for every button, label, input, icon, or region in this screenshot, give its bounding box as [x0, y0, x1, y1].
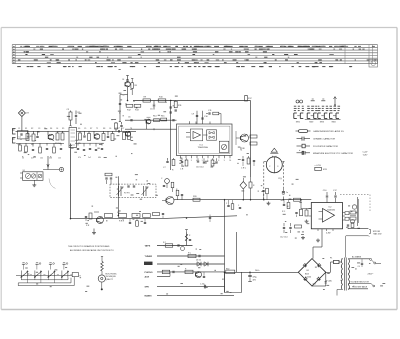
row1 components — [163, 242, 185, 251]
svg-text:10: 10 — [229, 160, 231, 162]
wire row TUNER — [145, 256, 225, 258]
transistor T8 — [125, 131, 130, 136]
capacitor C17 — [323, 190, 328, 203]
svg-text:MINIATURE ELECTROLYTIC CAPACIT: MINIATURE ELECTROLYTIC CAPACITOR — [313, 152, 353, 155]
svg-text:C4: C4 — [358, 266, 360, 268]
resistor R15 — [161, 116, 167, 121]
resistor R8 — [131, 78, 137, 95]
resistor R1 — [26, 131, 33, 140]
bottom caps U2 — [280, 223, 302, 239]
parts cluster w1 — [262, 178, 282, 200]
wire coupling vertical — [170, 101, 172, 171]
legend extra resistor note — [315, 164, 328, 171]
svg-text:230V~: 230V~ — [368, 274, 375, 276]
svg-text:R R R: R R R — [119, 221, 125, 223]
svg-text:68k: 68k — [98, 157, 101, 159]
U2 pins — [309, 209, 350, 232]
capacitor C16 diamond node — [240, 178, 247, 200]
lamp V1 — [264, 148, 285, 173]
svg-text:VOLTAGE SELECTOR: VOLTAGE SELECTOR — [351, 280, 370, 283]
capacitor C15 — [161, 178, 174, 192]
IC1 bottom parts — [180, 158, 188, 170]
capacitor C1 — [18, 131, 29, 139]
capacitor C6b — [154, 119, 174, 130]
control block — [219, 141, 229, 152]
wire input bus — [16, 130, 137, 132]
svg-text:R6: R6 — [78, 128, 80, 130]
potentiometer P1 — [69, 126, 77, 148]
node annotation arc — [49, 179, 56, 189]
svg-text:TUNER: TUNER — [145, 256, 153, 258]
transistor T1 — [48, 131, 54, 140]
row2 components — [188, 252, 200, 257]
wire row RADIO — [144, 262, 225, 266]
connector jack — [43, 156, 64, 172]
capacitor C6 — [128, 117, 132, 122]
transistor T4 — [236, 131, 249, 145]
legend voltage note — [363, 152, 369, 157]
svg-text:2: 2 — [269, 166, 270, 168]
svg-text:POLYESTER CAPACITOR: POLYESTER CAPACITOR — [313, 145, 338, 148]
svg-text:C3: C3 — [38, 128, 40, 130]
svg-text:TAPE: TAPE — [145, 245, 151, 248]
resistor R18 — [250, 135, 257, 138]
bridge rectifier BR1 — [298, 259, 332, 286]
wire row AUX — [145, 275, 171, 278]
component labels input row — [18, 128, 132, 160]
op-amp U2 TDA2030 box — [311, 203, 342, 229]
annotation marks — [18, 69, 386, 294]
transistor T3 — [125, 82, 130, 87]
note text — [68, 245, 114, 252]
svg-text:C13 C14: C13 C14 — [196, 167, 203, 169]
parts list table — [12, 45, 377, 67]
legend resistor symbol — [296, 130, 345, 133]
capacitor C19 smoothing — [248, 272, 257, 281]
svg-text:TDA1524A: TDA1524A — [198, 146, 209, 149]
transistor T2 — [94, 131, 100, 139]
svg-text:R1: R1 — [25, 128, 27, 130]
legend electrolytic cap symbol — [297, 150, 354, 155]
transistor T6 — [97, 217, 104, 224]
wire return loop — [225, 272, 242, 292]
svg-text:C5: C5 — [84, 128, 86, 130]
capacitor C4 — [122, 76, 129, 82]
svg-text:2n2: 2n2 — [88, 157, 91, 159]
svg-text:C=25°: C=25° — [363, 152, 369, 154]
svg-text:T=85°: T=85° — [363, 154, 368, 156]
wire row MAINS — [145, 295, 235, 298]
svg-text:10k: 10k — [40, 158, 43, 160]
svg-text:SW4: SW4 — [332, 121, 336, 123]
svg-text:R2: R2 — [31, 128, 33, 130]
svg-text:0.4W: 0.4W — [326, 232, 331, 234]
svg-text:C 47μ: C 47μ — [200, 284, 205, 286]
svg-text:3: 3 — [277, 166, 278, 168]
svg-text:P2 P3: P2 P3 — [124, 193, 130, 195]
svg-text:R8: R8 — [103, 128, 105, 130]
row5 join — [169, 272, 171, 277]
svg-text:C2200: C2200 — [306, 276, 312, 278]
wire mains top — [348, 256, 381, 264]
label 230V — [368, 274, 375, 276]
wire stage A — [133, 100, 251, 102]
wire stage B — [125, 119, 177, 121]
wire stage B return — [125, 120, 177, 129]
wire vertical bus left — [70, 144, 72, 219]
transformer TR1 — [337, 258, 350, 296]
switch S1 block — [20, 170, 43, 187]
svg-text:C4: C4 — [56, 128, 58, 130]
connector J1 (DIN input diamond) — [18, 110, 29, 132]
output network — [347, 197, 359, 229]
wire speaker out — [346, 229, 382, 237]
resistor R3 R4 — [55, 131, 64, 145]
switch bus wiring — [18, 277, 74, 286]
svg-text:R7: R7 — [90, 128, 92, 130]
meter note — [106, 273, 118, 281]
wire bias vertical — [119, 95, 128, 122]
capacitor C11 R16 — [206, 110, 221, 124]
svg-text:9: 9 — [224, 160, 225, 162]
diode matrix block — [207, 130, 217, 140]
row4 components — [162, 268, 235, 277]
second stage network — [75, 143, 104, 151]
wire feed vertical — [250, 101, 252, 178]
label IC1 — [198, 145, 209, 150]
capacitor C20 mains — [358, 259, 364, 268]
dashed feedback wire — [340, 195, 370, 213]
svg-text:CERAMIC CAPACITOR: CERAMIC CAPACITOR — [313, 138, 336, 141]
svg-text:B40/: B40/ — [305, 274, 309, 276]
wire row SPK — [145, 287, 225, 289]
wire row PHONO — [145, 272, 225, 274]
resistor R22 R23 right — [350, 205, 357, 220]
capacitor C5 — [150, 101, 155, 111]
capacitor C21 — [282, 188, 288, 194]
resistor R2 network — [31, 131, 39, 146]
parts under wire — [129, 219, 146, 227]
svg-text:CARBON/RESISTOR LAYER 5%: CARBON/RESISTOR LAYER 5% — [313, 130, 344, 133]
row1 riser — [185, 230, 191, 246]
resistor R24 meter — [101, 256, 104, 275]
svg-text:47Ω: 47Ω — [323, 169, 327, 171]
legend ceramic cap symbol — [297, 137, 336, 141]
network below left — [115, 122, 123, 131]
capacitor C2 — [117, 128, 131, 140]
svg-text:C2(-): C2(-) — [278, 178, 282, 180]
svg-text:R15: R15 — [161, 116, 164, 118]
transistor T5 — [162, 197, 174, 205]
resistor R21 vertical — [249, 177, 255, 200]
wire vertical mid — [117, 176, 119, 215]
resistor boxes T6 — [85, 212, 113, 227]
svg-text:THE CIRCUIT IS DRAWN IN POSITI: THE CIRCUIT IS DRAWN IN POSITION AND — [68, 245, 110, 248]
op-amp U1 TDA1524 box — [177, 124, 233, 156]
svg-text:MAINS: MAINS — [145, 295, 153, 298]
svg-text:TDA2030: TDA2030 — [327, 208, 335, 211]
capacitor C7 C8 — [163, 158, 175, 172]
svg-text:C7: C7 — [122, 128, 124, 130]
label U2 below — [326, 232, 331, 234]
svg-text:8: 8 — [218, 160, 219, 162]
svg-text:SPK: SPK — [145, 287, 150, 289]
svg-text:C12 C14: C12 C14 — [280, 237, 287, 239]
capacitor C9 C10 above IC — [192, 111, 209, 124]
capacitor C3 R7 pair — [67, 109, 81, 126]
svg-text:R30: R30 — [226, 268, 229, 270]
transistor T7 — [146, 117, 151, 124]
svg-text:T4: T4 — [240, 150, 242, 152]
long risers — [224, 200, 226, 293]
lower amp row boxes — [119, 213, 165, 223]
op-amp U1 triangle — [186, 129, 208, 141]
wire U2 to bridge — [313, 229, 322, 259]
svg-text:S1: S1 — [23, 170, 25, 172]
svg-text:T2: T2 — [96, 128, 98, 130]
lower network row — [16, 143, 64, 159]
wire DC rail — [225, 270, 299, 273]
svg-text:47k: 47k — [78, 157, 81, 159]
svg-text:R14: R14 — [153, 116, 156, 118]
resistor R10 — [158, 97, 166, 103]
resistor R9 — [143, 97, 150, 103]
ground g1 — [267, 202, 271, 206]
svg-text:ELECTRONIC: ELECTRONIC — [106, 273, 118, 275]
cap on lower bus — [209, 215, 211, 223]
resistor R5 cluster — [78, 131, 91, 145]
op-amp U2 triangle — [319, 207, 336, 223]
svg-text:1k5: 1k5 — [58, 158, 61, 160]
svg-text:C R C: C R C — [241, 168, 247, 170]
row6 capacitor — [200, 284, 206, 289]
meter M1 — [98, 275, 105, 290]
ground g3 — [92, 229, 96, 235]
wire into amp — [305, 209, 309, 224]
cluster caps left — [105, 173, 112, 184]
resistor R6 cluster — [102, 131, 114, 140]
svg-text:PHONO: PHONO — [145, 272, 153, 274]
fuse F1 — [326, 258, 342, 273]
svg-text:470μ: 470μ — [253, 277, 257, 279]
legend potentiometer symbols — [294, 97, 341, 124]
svg-text:C1: C1 — [19, 137, 21, 139]
svg-text:1n: 1n — [286, 192, 288, 194]
svg-text:AS VIEWED OFF BECAUSE ON POSIT: AS VIEWED OFF BECAUSE ON POSITION TO — [70, 249, 114, 252]
svg-text:C(M): C(M) — [328, 281, 332, 283]
cluster above T5 — [176, 189, 183, 200]
svg-text:QUALITY: QUALITY — [106, 278, 114, 281]
svg-text:5: 5 — [202, 160, 203, 162]
svg-text:R4: R4 — [50, 128, 52, 130]
svg-text:C6: C6 — [109, 128, 111, 130]
svg-text:3: 3 — [191, 160, 192, 162]
svg-text:C6: C6 — [128, 117, 130, 119]
connector J2 phono jacks — [12, 129, 16, 144]
resistor R14 — [153, 116, 160, 122]
resistor R12 R13 below — [126, 103, 141, 112]
svg-text:≈ 4.7Ω: ≈ 4.7Ω — [315, 164, 322, 167]
ground g2 — [301, 236, 320, 242]
svg-text:C1: C1 — [18, 128, 20, 130]
riser parts — [226, 200, 241, 210]
svg-text:R5: R5 — [62, 128, 64, 130]
svg-text:AUX: AUX — [145, 275, 150, 278]
svg-text:SW1: SW1 — [296, 121, 300, 123]
wire mains bottom — [348, 280, 374, 288]
svg-text:SW3: SW3 — [320, 121, 324, 123]
row3 diodes — [196, 260, 208, 267]
wire U2 right to transformer — [345, 236, 347, 258]
resistor R17 above right — [245, 95, 253, 101]
svg-text:IC2: IC2 — [329, 207, 332, 209]
resistor R19 — [250, 142, 257, 145]
svg-text:C4: C4 — [122, 79, 124, 81]
resistor R11 vertical — [174, 101, 182, 112]
svg-text:R8: R8 — [135, 85, 137, 87]
svg-text:D1 D2: D1 D2 — [196, 260, 201, 262]
wire preamp out — [174, 199, 311, 201]
parts cluster w2 — [282, 198, 301, 213]
wire lamp dashed leads — [264, 162, 284, 200]
switch bank S2 — [16, 263, 82, 278]
IC1 pins — [180, 121, 232, 162]
svg-text:SW2: SW2 — [309, 121, 313, 123]
wire lower bus — [71, 216, 238, 219]
svg-text:TECHNIQUE: TECHNIQUE — [106, 276, 117, 278]
resistor R20 — [193, 196, 200, 201]
input divider left of U2 — [295, 200, 311, 217]
parts below T4 — [240, 150, 255, 170]
svg-text:MAX 10W: MAX 10W — [374, 233, 382, 236]
bass-treble dashed block — [110, 184, 156, 198]
legend polyester cap symbol — [297, 144, 339, 148]
wire T3 emitter — [127, 87, 129, 101]
capacitor C18 — [333, 190, 338, 203]
svg-text:7: 7 — [213, 160, 214, 162]
svg-text:AC MAINS: AC MAINS — [352, 256, 362, 259]
wire row TAPE — [145, 245, 193, 248]
